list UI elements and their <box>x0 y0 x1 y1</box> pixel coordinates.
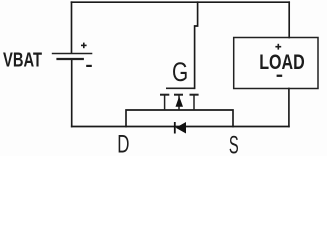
body contact stem <box>178 95 180 110</box>
battery plus mark <box>81 43 87 49</box>
wire gate feed from top rail <box>195 2 198 88</box>
svg-text:D: D <box>117 131 129 156</box>
channel segment source side <box>160 94 169 96</box>
load box <box>234 38 318 89</box>
wire battery negative lead <box>71 60 73 127</box>
source contact stem <box>164 95 166 110</box>
wire top rail <box>72 1 290 3</box>
gate bar <box>166 87 195 89</box>
svg-text:VBAT: VBAT <box>3 49 42 71</box>
wire load bottom lead <box>288 89 290 127</box>
diode body diode of Q1 <box>174 122 186 134</box>
battery minus mark <box>86 65 92 67</box>
svg-text:G: G <box>172 57 188 87</box>
load minus mark <box>277 75 283 77</box>
svg-text:S: S <box>229 131 239 156</box>
body arrow of Q1 <box>176 96 184 107</box>
transistor Q1 N-channel MOSFET <box>160 88 199 110</box>
wire source-drain loop to MOSFET channel <box>126 110 233 127</box>
channel segment body <box>174 94 183 96</box>
wire bottom rail <box>72 126 289 128</box>
load plus mark <box>275 44 281 50</box>
drain contact stem <box>193 95 195 110</box>
wire battery positive lead <box>71 2 73 53</box>
svg-text:LOAD: LOAD <box>259 49 305 74</box>
channel segment drain side <box>190 94 199 96</box>
wire load top lead <box>288 2 290 37</box>
battery VBAT <box>52 54 93 60</box>
